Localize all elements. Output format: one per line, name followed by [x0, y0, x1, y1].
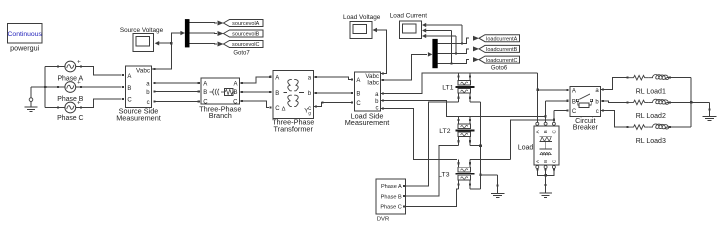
- svg-text:Goto6: Goto6: [491, 66, 508, 72]
- svg-text:Load Voltage: Load Voltage: [343, 14, 381, 21]
- svg-text:B: B: [356, 91, 360, 97]
- svg-text:Measurement: Measurement: [116, 114, 161, 123]
- svg-text:sourcevolB: sourcevolB: [232, 32, 260, 38]
- svg-text:Continuous: Continuous: [8, 31, 43, 38]
- svg-text:Phase B: Phase B: [381, 195, 402, 201]
- svg-text:LT1: LT1: [442, 85, 453, 92]
- svg-text:Phase C: Phase C: [57, 115, 83, 122]
- svg-text:Breaker: Breaker: [573, 123, 599, 132]
- svg-text:LT3: LT3: [438, 171, 449, 178]
- svg-text:Load Current: Load Current: [390, 13, 428, 20]
- svg-text:C: C: [275, 106, 280, 112]
- svg-text:B: B: [233, 90, 237, 96]
- svg-text:Δ: Δ: [282, 107, 286, 113]
- svg-text:A: A: [203, 82, 207, 88]
- svg-text:sourcevolC: sourcevolC: [232, 42, 260, 48]
- svg-text:C: C: [572, 109, 577, 115]
- svg-text:B: B: [543, 130, 548, 133]
- svg-text:powergui: powergui: [10, 44, 40, 53]
- svg-text:RL Load2: RL Load2: [636, 113, 666, 120]
- svg-text:A: A: [572, 89, 576, 95]
- svg-text:sourcevolA: sourcevolA: [232, 21, 260, 27]
- svg-text:B: B: [572, 99, 576, 105]
- svg-text:Measurement: Measurement: [345, 118, 390, 127]
- svg-text:Transformer: Transformer: [273, 125, 313, 134]
- svg-text:Load: Load: [518, 144, 533, 151]
- svg-text:B: B: [127, 86, 131, 92]
- svg-text:LT2: LT2: [439, 128, 450, 135]
- svg-text:Goto7: Goto7: [233, 51, 250, 57]
- svg-text:c: c: [596, 109, 599, 115]
- svg-text:loadcurrentA: loadcurrentA: [486, 36, 518, 42]
- svg-text:RL Load1: RL Load1: [636, 89, 666, 96]
- svg-text:Phase A: Phase A: [381, 184, 402, 190]
- svg-text:Iabc: Iabc: [367, 80, 379, 87]
- svg-text:Vabc: Vabc: [136, 68, 151, 75]
- svg-text:Phase C: Phase C: [380, 204, 401, 210]
- svg-text:loadcurrentB: loadcurrentB: [486, 47, 518, 53]
- svg-text:Phase A: Phase A: [57, 75, 83, 82]
- svg-text:B: B: [543, 160, 548, 163]
- svg-text:C: C: [356, 101, 361, 107]
- svg-text:c: c: [147, 100, 150, 106]
- svg-text:DVR: DVR: [377, 216, 389, 222]
- svg-text:Phase B: Phase B: [57, 96, 83, 103]
- svg-text:g: g: [308, 110, 311, 115]
- svg-text:loadcurrentC: loadcurrentC: [486, 58, 518, 64]
- svg-text:A: A: [275, 75, 279, 81]
- svg-text:RL Load3: RL Load3: [636, 138, 666, 145]
- svg-text:B: B: [275, 91, 279, 97]
- svg-text:B: B: [203, 90, 207, 96]
- svg-text:A: A: [356, 78, 360, 84]
- svg-text:A: A: [127, 74, 131, 80]
- svg-text:C: C: [127, 98, 132, 104]
- svg-text:Branch: Branch: [209, 111, 232, 120]
- svg-text:A: A: [233, 82, 237, 88]
